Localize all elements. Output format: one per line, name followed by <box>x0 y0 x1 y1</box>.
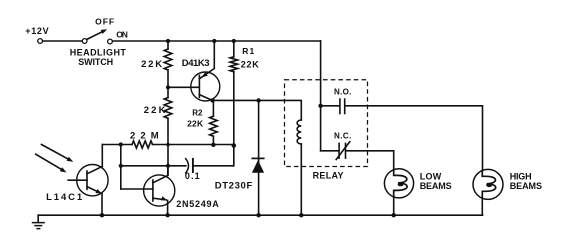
wire +12V to switch pole <box>43 40 83 42</box>
svg-text:RELAY: RELAY <box>313 171 344 181</box>
lamp low beams <box>384 169 451 216</box>
svg-text:BEAMS: BEAMS <box>510 181 542 191</box>
resistor R1 22K <box>230 39 259 146</box>
inductor relay coil <box>297 120 301 215</box>
capacitor C1 0.1 <box>121 146 234 181</box>
svg-text:+12V: +12V <box>25 26 48 36</box>
svg-text:0.1: 0.1 <box>185 171 200 181</box>
resistor 22M <box>102 131 234 149</box>
node Q1 collector junction <box>210 98 214 102</box>
relay contact N.O. <box>321 88 352 115</box>
transistor Q1 D41K3 <box>182 39 220 101</box>
wire Q1 collector to relay coil <box>213 100 302 120</box>
node R1 R2 cap junction <box>211 143 236 148</box>
svg-text:ON: ON <box>116 29 128 39</box>
svg-text:N.O.: N.O. <box>334 88 351 97</box>
svg-text:R2: R2 <box>192 109 203 118</box>
node divider midpoint to Q1 base <box>166 85 199 89</box>
wire ground rail <box>38 213 482 217</box>
svg-text:N.C.: N.C. <box>334 132 351 141</box>
resistor 22K lower (divider bottom) <box>144 87 172 175</box>
svg-text:R1: R1 <box>242 46 254 56</box>
node +12V supply terminal <box>25 26 48 43</box>
resistor R2 22K <box>187 100 217 145</box>
diode D1 DT230F <box>215 98 265 215</box>
svg-text:BEAMS: BEAMS <box>420 181 452 191</box>
svg-text:L14C1: L14C1 <box>46 192 83 203</box>
wire N.O. contact to high beams <box>345 106 482 170</box>
svg-text:22M: 22M <box>130 131 159 142</box>
lamp high beams <box>473 169 542 215</box>
node 22M wire to cap branch <box>119 142 123 189</box>
svg-text:22K: 22K <box>241 59 259 69</box>
light arrows into phototransistor <box>36 145 74 173</box>
svg-text:HEADLIGHT: HEADLIGHT <box>70 47 127 57</box>
svg-text:22K: 22K <box>187 119 204 129</box>
svg-text:DT230F: DT230F <box>215 181 253 192</box>
svg-text:22K: 22K <box>144 105 166 116</box>
switch S1 headlight switch <box>70 17 128 67</box>
relay K1 dashed enclosure <box>285 80 368 181</box>
relay contact N.C. <box>321 132 352 160</box>
svg-text:HIGH: HIGH <box>510 171 532 181</box>
svg-text:LOW: LOW <box>420 171 442 181</box>
wire top +12V rail <box>112 40 320 42</box>
ground symbol <box>32 215 45 228</box>
transistor Q3 2N5249A <box>121 166 219 215</box>
svg-text:OFF: OFF <box>95 17 114 27</box>
svg-text:2N5249A: 2N5249A <box>176 199 219 209</box>
wire relay contacts feed from +12V rail <box>318 41 322 151</box>
resistor 22K upper (divider top) <box>141 39 172 87</box>
wire N.C. contact to low beams <box>346 151 394 169</box>
transistor Q2 L14C1 phototransistor <box>46 145 108 216</box>
svg-text:22K: 22K <box>141 59 162 70</box>
svg-text:SWITCH: SWITCH <box>78 57 113 67</box>
svg-text:D41K3: D41K3 <box>182 58 210 69</box>
